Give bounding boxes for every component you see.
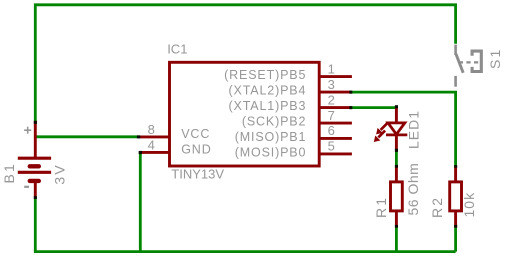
wire: R1 bottom to bottom rail bbox=[395, 227, 398, 252]
svg-text:S1: S1 bbox=[487, 47, 503, 69]
pin 6 stub (MISO)PB1 bbox=[319, 137, 352, 140]
pin 7 stub (SCK)PB2 bbox=[319, 122, 352, 125]
svg-text:1: 1 bbox=[328, 61, 335, 76]
svg-text:4: 4 bbox=[148, 137, 155, 152]
LED cathode bar bbox=[386, 133, 407, 136]
wire: battery - down to bottom rail bbox=[34, 197, 37, 252]
svg-text:7: 7 bbox=[328, 108, 335, 123]
junction: pin 4 to GND wire bbox=[139, 151, 142, 154]
svg-text:(MISO)PB1: (MISO)PB1 bbox=[235, 130, 307, 144]
LED light arrow 2 bbox=[374, 131, 385, 142]
svg-text:10k: 10k bbox=[461, 192, 477, 218]
battery bottom lead bbox=[34, 181, 37, 197]
svg-text:8: 8 bbox=[148, 122, 155, 137]
junction: pin 8 to VCC wire bbox=[137, 135, 140, 138]
wire: LED cathode to R1 bbox=[395, 150, 398, 167]
R2 bottom lead bbox=[454, 211, 457, 227]
wire: R2 bottom to bottom rail bbox=[454, 227, 457, 252]
svg-text:5: 5 bbox=[328, 139, 335, 154]
junction: R1 top pin bbox=[395, 165, 398, 168]
R1 bottom lead bbox=[395, 211, 398, 227]
svg-text:2: 2 bbox=[328, 92, 335, 107]
LED anode lead bbox=[395, 106, 398, 123]
wire: GND net pin 4 down to bottom rail bbox=[139, 152, 142, 251]
svg-text:GND: GND bbox=[181, 142, 211, 156]
pin 8 stub VCC bbox=[140, 135, 170, 138]
resistor R1 bbox=[391, 167, 403, 227]
R2 top lead bbox=[454, 167, 457, 182]
battery + mark bbox=[24, 127, 31, 134]
junction: battery - pin to wire bbox=[34, 196, 37, 199]
pin 3 stub (XTAL2)PB4 bbox=[319, 91, 350, 94]
S1 bottom terminal stub bbox=[454, 76, 457, 87]
battery short plate 1 bbox=[30, 164, 39, 168]
pin 2 stub (XTAL1)PB3 bbox=[319, 106, 350, 109]
pin 5 stub (MOSI)PB0 bbox=[319, 152, 352, 155]
battery long plate 2 bbox=[18, 171, 51, 174]
S1 actuator dashed link bbox=[459, 61, 479, 63]
LED cathode lead bbox=[395, 135, 398, 151]
pin 1 stub (RESET)PB5 bbox=[319, 75, 352, 78]
junction: LED anode bbox=[395, 105, 398, 108]
junction: R2 bottom pin bbox=[454, 225, 457, 228]
junction: battery + pin to wire bbox=[34, 121, 37, 124]
resistor R2 bbox=[450, 167, 462, 227]
battery short plate 2 bbox=[30, 179, 39, 183]
svg-text:IC1: IC1 bbox=[167, 41, 187, 56]
wire: pin 2 net to LED anode bbox=[351, 106, 397, 109]
svg-text:(RESET)PB5: (RESET)PB5 bbox=[224, 68, 306, 82]
svg-text:VCC: VCC bbox=[181, 127, 210, 141]
switch S1 symbol bbox=[456, 45, 482, 87]
svg-text:(XTAL2)PB4: (XTAL2)PB4 bbox=[229, 84, 307, 98]
battery top lead bbox=[34, 122, 37, 159]
R2 body box bbox=[450, 182, 462, 211]
R1 body box bbox=[391, 182, 403, 211]
battery long plate 1 bbox=[18, 157, 51, 160]
wire: top rail from battery + up and across to switch bbox=[35, 5, 455, 122]
battery B1 symbol bbox=[18, 122, 51, 198]
junction: R1 bottom pin bbox=[395, 225, 398, 228]
R1 top lead bbox=[395, 167, 398, 182]
svg-text:R2: R2 bbox=[429, 196, 445, 218]
S1 lever bbox=[456, 54, 463, 73]
svg-text:3: 3 bbox=[328, 77, 335, 92]
LED triangle bbox=[388, 123, 405, 134]
wire: VCC net from battery + to pin 8 bbox=[34, 135, 140, 138]
LED LED1 symbol bbox=[386, 106, 407, 150]
svg-text:(SCK)PB2: (SCK)PB2 bbox=[242, 115, 306, 129]
pin 4 stub GND bbox=[140, 151, 170, 154]
svg-text:B1: B1 bbox=[1, 162, 17, 184]
wire: pin 3 net to switch and R2 bbox=[351, 92, 456, 166]
svg-text:(XTAL1)PB3: (XTAL1)PB3 bbox=[229, 99, 307, 113]
wire: bottom GND rail bbox=[34, 250, 456, 253]
svg-text:(MOSI)PB0: (MOSI)PB0 bbox=[235, 145, 307, 159]
S1 top terminal stub bbox=[454, 45, 457, 55]
junction: LED cathode bbox=[395, 149, 398, 152]
junction: R2 top pin bbox=[454, 165, 457, 168]
junction: pin 2 stub to wire bbox=[349, 106, 352, 109]
junction: pin 3 stub to wire bbox=[349, 91, 352, 94]
svg-text:6: 6 bbox=[328, 123, 335, 138]
S1 contact bracket bbox=[472, 51, 481, 71]
IC IC1 (TINY13V microcontroller body) bbox=[170, 62, 320, 166]
LED light arrow 1 bbox=[376, 123, 387, 134]
battery - mark bbox=[24, 186, 29, 188]
svg-text:3V: 3V bbox=[52, 163, 68, 185]
svg-text:LED1: LED1 bbox=[406, 110, 422, 149]
svg-text:R1: R1 bbox=[373, 196, 389, 218]
svg-text:TINY13V: TINY13V bbox=[171, 166, 224, 181]
svg-text:56 Ohm: 56 Ohm bbox=[405, 163, 421, 216]
